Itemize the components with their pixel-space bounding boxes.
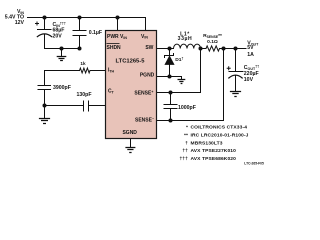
svg-text:0.1Ω: 0.1Ω [207,39,218,45]
wire CIN bottom stub [44,34,46,48]
svg-text:††: †† [182,148,188,154]
inductor L1 humps [174,44,201,48]
diode D1 triangle [165,56,174,65]
capacitor CIN curved plate [37,34,51,37]
capacitor 1000pF plates [164,105,177,109]
wire comp left drop [44,71,46,86]
wire PWR VIN drop [117,18,119,31]
capacitor 130pF plates [84,101,89,111]
svg-text:LTC1265-5: LTC1265-5 [116,59,146,65]
wire 1000pF stubs [170,93,172,121]
svg-text:†: † [185,140,188,146]
wire ground2 stub [44,106,46,119]
wire diode top stub [169,49,171,56]
junction SW node / D1 cathode [168,47,172,51]
wire diode bottom stub [169,65,171,77]
value label L1 [178,31,193,42]
wire 0.1uF stubs [79,18,81,49]
junction VOUT / COUT [234,47,238,51]
capacitor CIN plates [38,29,52,31]
svg-text:SW: SW [145,45,153,51]
junction L1 / RSENSE / SENSE+ [199,47,203,51]
wire SENSE+ line [157,49,201,93]
note component sourcing list [179,125,248,163]
svg-text:0.1µF: 0.1µF [89,30,102,36]
wire RSENSE to VOUT [220,48,247,50]
ground at PGND [178,80,186,84]
diode D1 schottky cathode bar [165,54,174,58]
svg-text:SGND: SGND [122,130,137,136]
svg-text:12V: 12V [15,20,25,26]
svg-text:20V: 20V [53,33,63,39]
junction SENSE- / 1000pF [169,119,173,123]
wire SGND stub [130,139,132,148]
svg-text:SENSE−: SENSE− [135,117,154,123]
resistor RSENSE zigzag [206,46,220,51]
svg-text:SENSE+: SENSE+ [134,90,153,96]
svg-text:PGND: PGND [140,72,155,78]
svg-text:AVX TPSE686K020: AVX TPSE686K020 [191,156,237,162]
svg-text:SHDN: SHDN [107,45,122,51]
wire SENSE- line [157,49,224,121]
junction SENSE+ / 1000pF [169,91,173,95]
junction PGND / D1 anode [168,75,172,79]
node VOUT label [247,40,259,58]
wire SW to L1 [157,48,174,50]
wire PGND line [157,77,182,80]
wire CT line [45,105,106,107]
svg-text:MBRS130LT3: MBRS130LT3 [191,140,223,146]
wire CIN top stub [44,18,46,30]
IC U1 LTC1265-5 body [106,31,157,139]
junction comp network / ground [43,104,47,108]
svg-text:1k: 1k [80,61,86,66]
ground below COUT [230,92,241,97]
junction ground rail / ground [60,47,64,51]
junction VIN rail / PWR VIN [116,16,120,20]
capacitor COUT curved plate [229,75,242,78]
svg-text:**: ** [184,132,188,138]
ground below CIN rail [57,57,67,61]
wire top VIN rail [28,18,146,31]
junction VIN rail / 0.1uF [78,16,82,20]
wire COUT top stub [235,49,237,72]
ground below SGND [125,148,135,153]
value label CIN [53,21,66,39]
wire ground1 stub [61,49,63,57]
junction ground rail / 0.1uF [78,47,82,51]
svg-text:COILTRONICS CTX33-4: COILTRONICS CTX33-4 [191,125,248,131]
svg-text:5V: 5V [247,45,254,51]
svg-text:3900pF: 3900pF [53,85,71,91]
value label RSENSE [203,33,222,45]
value label COUT [244,64,259,83]
wire COUT bottom stub [235,76,237,91]
svg-text:IRC LRC2010-01-R100-J: IRC LRC2010-01-R100-J [191,132,249,138]
wire 3900pF bottom stub [44,90,46,106]
wire ground rail CIN to 0.1uF [45,48,80,50]
svg-text:LTC-265-F05: LTC-265-F05 [244,162,264,166]
svg-text:10V: 10V [244,77,254,83]
svg-text:*: * [186,125,188,131]
capacitor COUT plates [229,71,243,73]
svg-text:130pF: 130pF [77,92,92,98]
wire ITH to 1k [45,70,106,72]
junction VIN rail / CIN [43,16,47,20]
svg-text:1A: 1A [247,52,254,58]
svg-text:1000pF: 1000pF [178,105,196,111]
capacitor 3900pF plates [38,86,51,90]
resistor 1k zigzag [80,68,91,73]
junction VOUT / SENSE- [222,47,226,51]
node VIN source label [5,9,25,26]
plus sign CIN polarity [35,22,39,26]
svg-text:33µH: 33µH [178,36,193,42]
plus sign COUT polarity [227,66,231,70]
wire L1 to RSENSE [201,48,207,50]
ground below comp network [39,119,50,124]
capacitor 0.1uF plates [73,31,86,36]
svg-text:AVX TPSE227K010: AVX TPSE227K010 [191,148,237,154]
svg-text:†††: ††† [179,156,188,162]
